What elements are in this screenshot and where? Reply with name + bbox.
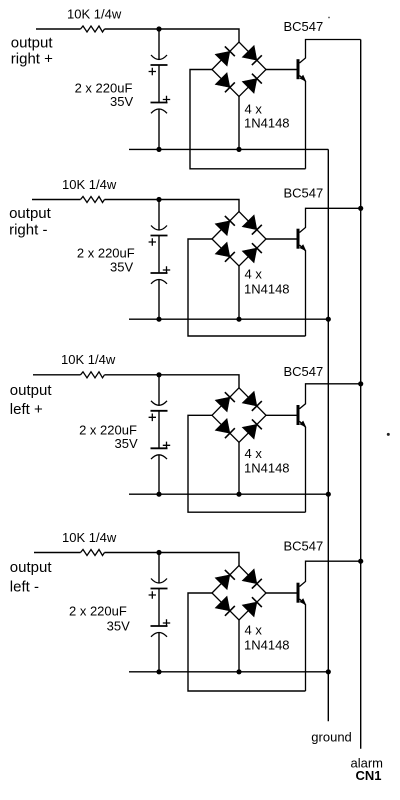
svg-text:output: output — [11, 34, 54, 51]
svg-text:4 x: 4 x — [245, 446, 263, 461]
wire: bridge right vertex to Q4 base — [266, 592, 297, 594]
wire: C4 to bottom line — [158, 280, 160, 320]
wire: C1 to C2 — [158, 65, 160, 103]
diode D1 (bridge B1 top-left) — [215, 46, 236, 66]
wire: junction to capacitor C3 — [158, 200, 160, 231]
resistor R4 10K 1/4w — [81, 550, 105, 556]
svg-text:output: output — [10, 382, 53, 399]
diode bridge B1 outline — [212, 42, 266, 97]
wire: bottom rail ch1 — [129, 148, 328, 150]
diode D11 (bridge B3 bottom-left) — [215, 419, 236, 440]
svg-text:left -: left - — [10, 579, 39, 596]
capacitor C1 220uF curved plate — [151, 55, 167, 60]
svg-text:BC547: BC547 — [284, 19, 324, 34]
node: junction top of C7 — [156, 550, 161, 555]
node: junction Q3 collector to alarm bus — [358, 381, 363, 386]
diode D13 (bridge B4 top-left) — [215, 569, 236, 589]
svg-text:10K 1/4w: 10K 1/4w — [62, 177, 117, 192]
svg-text:2 x 220uF: 2 x 220uF — [69, 603, 127, 618]
svg-text:BC547: BC547 — [284, 364, 324, 379]
capacitor C7 straight plate — [151, 588, 168, 590]
diode D12 (bridge B3 bottom-right) — [242, 419, 263, 440]
node: junction Q4 collector to alarm bus — [358, 559, 363, 564]
polarity + of C6 — [163, 442, 170, 449]
wire: bridge right vertex to Q2 base — [266, 238, 297, 240]
wire: Q1 emitter — [300, 76, 306, 169]
wire: Q3 collector to alarm bus — [300, 384, 361, 409]
transistor Q3 BC547 base bar — [297, 405, 300, 425]
Q3 emitter arrow — [300, 421, 307, 428]
wire: input to resistor R1 — [36, 28, 81, 30]
transistor Q4 BC547 base bar — [297, 583, 300, 603]
svg-text:1N4148: 1N4148 — [244, 637, 290, 652]
polarity + of C7 — [149, 591, 156, 599]
wire: C6 to bottom line — [158, 455, 160, 494]
Q1 emitter arrow — [300, 75, 307, 82]
diode bridge B4 outline — [212, 566, 266, 621]
svg-text:4 x: 4 x — [245, 266, 263, 281]
transistor Q2 BC547 base bar — [297, 229, 300, 249]
wire: alarm bus — [360, 40, 362, 749]
wire: bridge right vertex to Q1 base — [266, 69, 297, 71]
wire: bridge left vertex to emitter return loop — [190, 70, 306, 169]
wire: bridge right vertex to Q3 base — [266, 414, 297, 416]
wire: Q4 collector to alarm bus — [300, 561, 361, 586]
svg-text:4 x: 4 x — [245, 102, 263, 117]
wire: input to resistor R4 — [34, 552, 81, 554]
polarity + of C2 — [163, 96, 170, 103]
polarity + of C1 — [149, 68, 156, 76]
node: junction ch4 rail to ground bus — [326, 669, 331, 674]
capacitor C8 curved plate — [151, 633, 167, 637]
resistor R3 10K 1/4w — [81, 372, 105, 378]
wire: bridge left vertex to emitter return loop — [188, 593, 306, 691]
node: junction ch2 rail to ground bus — [326, 317, 331, 322]
diode D10 (bridge B3 top-right) — [242, 391, 263, 411]
wire: Q2 emitter — [300, 245, 306, 336]
capacitor C4 curved plate — [151, 280, 167, 284]
Q4 emitter arrow — [300, 598, 307, 605]
node: junction C4 bottom — [156, 317, 161, 322]
diode D9 (bridge B3 top-left) — [215, 391, 236, 411]
svg-text:1N4148: 1N4148 — [244, 461, 290, 476]
stray mark 1 — [328, 17, 330, 19]
node: junction top of C1 — [156, 26, 161, 31]
wire: Q4 emitter — [300, 599, 306, 691]
svg-text:10K 1/4w: 10K 1/4w — [61, 352, 116, 367]
svg-text:4 x: 4 x — [245, 623, 263, 638]
svg-text:right -: right - — [9, 221, 47, 238]
wire: resistor R2 to bridge top — [105, 200, 240, 212]
polarity + of C5 — [149, 414, 156, 422]
wire: C7 to C8 — [158, 589, 160, 627]
wire: bridge left vertex to emitter return loop — [188, 239, 306, 336]
svg-text:35V: 35V — [110, 94, 133, 109]
svg-text:BC547: BC547 — [284, 186, 324, 201]
svg-text:10K 1/4w: 10K 1/4w — [62, 530, 117, 545]
wire: junction to capacitor C1 — [158, 29, 160, 60]
node: junction bridge B1 bottom — [236, 147, 241, 152]
wire: ground bus — [327, 149, 329, 721]
wire: Q3 emitter — [300, 421, 306, 512]
svg-text:right +: right + — [11, 50, 53, 67]
diode D3 (bridge B1 bottom-left) — [215, 73, 236, 94]
Q2 emitter arrow — [300, 244, 307, 251]
svg-text:1N4148: 1N4148 — [244, 281, 290, 296]
wire: Q1 collector to alarm bus — [300, 40, 361, 64]
resistor R2 10K 1/4w — [81, 197, 105, 203]
svg-text:BC547: BC547 — [284, 539, 324, 554]
node: junction bridge B3 bottom — [236, 492, 241, 497]
wire: bottom rail ch3 — [129, 493, 328, 495]
wire: Q2 collector to alarm bus — [300, 208, 361, 232]
capacitor C6 curved plate — [151, 455, 167, 459]
wire: bridge bottom vertex down — [238, 97, 240, 150]
svg-text:output: output — [10, 559, 53, 576]
node: junction C8 bottom — [156, 669, 161, 674]
wire: bottom rail ch4 — [129, 671, 328, 673]
node: junction ch3 rail to ground bus — [326, 492, 331, 497]
svg-text:left +: left + — [10, 401, 43, 418]
polarity + of C4 — [163, 266, 170, 273]
svg-text:35V: 35V — [110, 260, 133, 275]
diode D16 (bridge B4 bottom-right) — [242, 596, 263, 617]
node: junction bridge B2 bottom — [236, 317, 241, 322]
capacitor C5 220uF curved plate — [151, 401, 167, 406]
node: junction bridge B4 bottom — [236, 669, 241, 674]
svg-text:ground: ground — [311, 729, 351, 744]
wire: C3 to C4 — [158, 236, 160, 274]
wire: junction to capacitor C7 — [158, 553, 160, 584]
svg-text:2 x 220uF: 2 x 220uF — [77, 246, 135, 261]
node: junction C2 bottom — [156, 147, 161, 152]
wire: input to resistor R2 — [32, 199, 81, 201]
node: junction top of C3 — [156, 197, 161, 202]
resistor R1 10K 1/4w — [81, 26, 105, 32]
diode D7 (bridge B2 bottom-left) — [215, 242, 236, 263]
wire: resistor R4 to bridge top — [105, 553, 240, 566]
node: junction top of C5 — [156, 372, 161, 377]
wire: C2 to bottom line — [158, 109, 160, 149]
capacitor C1 straight plate — [151, 64, 168, 66]
svg-text:10K 1/4w: 10K 1/4w — [67, 6, 122, 21]
diode D2 (bridge B1 top-right) — [242, 46, 263, 66]
wire: junction to capacitor C5 — [158, 375, 160, 406]
capacitor C7 220uF curved plate — [151, 579, 167, 584]
wire: resistor R1 to bridge top — [105, 29, 240, 42]
polarity + of C3 — [149, 238, 156, 246]
capacitor C3 straight plate — [151, 235, 168, 237]
svg-text:35V: 35V — [107, 618, 130, 633]
capacitor C4 220uF straight plate — [151, 272, 168, 274]
diode D4 (bridge B1 bottom-right) — [242, 73, 263, 94]
svg-text:35V: 35V — [115, 436, 138, 451]
capacitor C2 curved plate — [151, 109, 167, 113]
capacitor C8 220uF straight plate — [151, 625, 168, 627]
svg-text:1N4148: 1N4148 — [244, 116, 290, 131]
svg-text:output: output — [9, 205, 52, 222]
diode D15 (bridge B4 bottom-left) — [215, 596, 236, 617]
node: junction C6 bottom — [156, 492, 161, 497]
polarity + of C8 — [163, 619, 170, 626]
wire: bridge bottom vertex down — [238, 620, 240, 672]
transistor Q1 BC547 base bar — [297, 59, 300, 79]
wire: resistor R3 to bridge top — [105, 375, 240, 388]
wire: C5 to C6 — [158, 411, 160, 449]
svg-text:CN1: CN1 — [356, 768, 382, 783]
capacitor C3 220uF curved plate — [151, 226, 167, 231]
wire: bridge left vertex to emitter return loop — [188, 415, 306, 512]
diode bridge B3 outline — [212, 388, 266, 443]
diode D6 (bridge B2 top-right) — [242, 215, 263, 235]
capacitor C6 220uF straight plate — [151, 447, 168, 449]
diode D14 (bridge B4 top-right) — [242, 569, 263, 589]
wire: bottom rail ch2 — [129, 318, 328, 320]
wire: bridge bottom vertex down — [238, 266, 240, 319]
capacitor C2 220uF straight plate — [151, 102, 168, 104]
diode D8 (bridge B2 bottom-right) — [242, 242, 263, 263]
diode bridge B2 outline — [212, 212, 266, 267]
node: junction Q2 collector to alarm bus — [358, 206, 363, 211]
wire: C8 to bottom line — [158, 633, 160, 672]
capacitor C5 straight plate — [151, 410, 168, 412]
wire: bridge bottom vertex down — [238, 442, 240, 494]
stray mark 2 — [387, 433, 390, 436]
diode D5 (bridge B2 top-left) — [215, 215, 236, 235]
wire: input to resistor R3 — [33, 374, 81, 376]
